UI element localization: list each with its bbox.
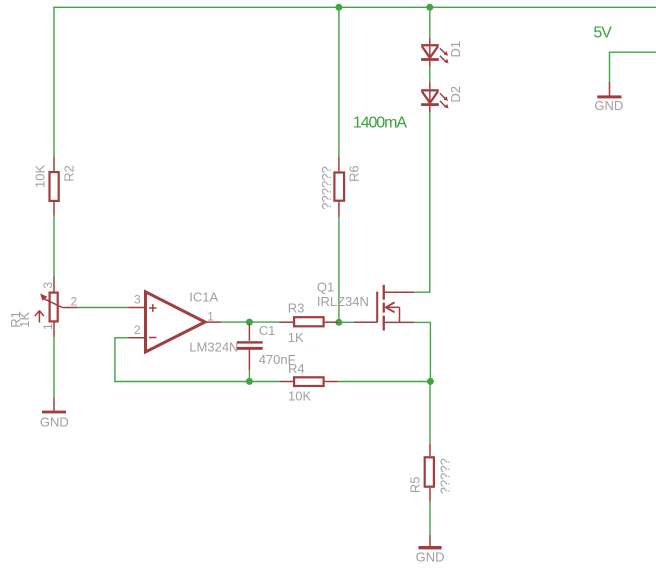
svg-text:??????: ?????? [319, 166, 334, 209]
wire source horizontal [414, 321, 430, 323]
resistor R5 [407, 443, 452, 501]
D2 cathode lead [429, 106, 431, 112]
wire R6 top vertical [338, 7, 340, 157]
svg-text:Q1: Q1 [317, 279, 334, 294]
Q1 bulk vertical link [399, 307, 401, 322]
R2 body [50, 172, 59, 201]
svg-text:3: 3 [134, 292, 141, 306]
junction feedback / C1 [246, 378, 253, 385]
ground top right bar [597, 95, 621, 98]
svg-text:2: 2 [134, 323, 141, 337]
svg-text:5V: 5V [593, 24, 612, 41]
D1 triangle right side [430, 46, 438, 57]
wire drain horizontal [414, 291, 430, 293]
op-amp U1 IC1A [128, 290, 238, 355]
svg-text:10K: 10K [32, 165, 47, 188]
IC1A minus sign [149, 337, 157, 339]
R5 body [425, 457, 434, 486]
R1 pin 3 lead [53, 277, 55, 292]
wire left vertical upper [53, 7, 55, 157]
R1 wiper diagonal [43, 298, 63, 307]
IC1A plus sign horizontal [149, 307, 157, 309]
wire R4 to source junction [338, 381, 431, 383]
resistor R2 [32, 156, 76, 215]
C1 bottom plate [237, 347, 263, 350]
Q1 drain lead [385, 291, 414, 293]
D2 light arrow 2 shaft [440, 101, 446, 107]
wire D2 cathode down to drain [429, 112, 431, 293]
Q1 channel bulk segment [383, 303, 385, 313]
svg-text:R2: R2 [62, 165, 77, 182]
wire D1 cathode to D2 anode [429, 67, 431, 83]
C1 bottom lead [248, 350, 250, 371]
wire source down to junction [429, 322, 431, 382]
svg-text:10K: 10K [288, 389, 311, 404]
Q1 bulk arrow barb upper [386, 302, 395, 307]
svg-text:D1: D1 [448, 41, 463, 58]
resistor R4 [280, 361, 338, 404]
svg-text:R3: R3 [288, 300, 305, 315]
svg-text:1K: 1K [17, 311, 32, 327]
R1 wiper pin 2 lead [62, 307, 77, 309]
resistor R3 [279, 300, 338, 344]
D2 triangle right side [430, 92, 438, 103]
wire R3 to gate [338, 321, 354, 323]
wire op-amp output to R3 [221, 321, 279, 323]
D1 light arrow 1 shaft [440, 48, 445, 53]
wire op-amp minus to feedback corner [114, 337, 128, 339]
junction top at LED column [426, 4, 433, 11]
R2 pin 2 lead [53, 202, 55, 216]
LED D2 [421, 82, 463, 112]
R6 pin 2 lead [338, 202, 340, 217]
R1 body [50, 293, 58, 322]
D1 triangle base bar [421, 44, 439, 46]
C1 top plate [237, 341, 263, 343]
svg-text:GND: GND [416, 550, 445, 565]
IC1A triangle [146, 292, 206, 352]
D2 light arrow 1 head [443, 96, 448, 101]
junction R3 / R6 / gate [335, 319, 342, 326]
R1 pin 1 lead [53, 323, 55, 338]
R2 pin 1 lead [53, 156, 55, 171]
R5 pin 1 lead [429, 443, 431, 456]
ground bottom right bar [419, 546, 442, 549]
svg-text:R5: R5 [407, 476, 422, 493]
Q1 source lead [385, 321, 414, 323]
R6 body [334, 173, 344, 201]
IC1A pin 3 lead [128, 307, 144, 309]
wire 5V vertical to ground [609, 52, 611, 82]
wire R5 to ground [429, 502, 431, 535]
transistor Q1 IRLZ34N [317, 279, 414, 330]
R3 pin 1 lead [279, 321, 293, 323]
svg-text:IC1A: IC1A [189, 290, 218, 305]
svg-text:3: 3 [41, 282, 55, 289]
junction source / R4 / R5 [427, 378, 434, 385]
IC1A pin 1 output lead [205, 321, 222, 323]
D1 light arrow 2 shaft [440, 56, 446, 62]
svg-text:LM324N: LM324N [189, 340, 238, 355]
D1 light arrow 1 head [443, 51, 448, 56]
junction top at R6 [335, 4, 342, 11]
R4 pin 1 lead [280, 381, 294, 383]
svg-text:1400mA: 1400mA [353, 115, 407, 132]
LED D1 [421, 38, 463, 67]
svg-text:1: 1 [41, 323, 55, 330]
R1 trim arrow barb left [35, 311, 40, 317]
wire pot to ground [53, 337, 55, 397]
C1 top lead [248, 324, 250, 341]
svg-text:D2: D2 [448, 86, 463, 103]
R6 pin 1 lead [338, 157, 340, 172]
wire wiper to op-amp plus input [78, 307, 129, 309]
wire feedback vertical [114, 338, 116, 382]
svg-text:1: 1 [207, 310, 214, 324]
Q1 gate bar [376, 292, 378, 323]
junction op-amp output / C1 [246, 319, 253, 326]
wire left vertical between R2 and R1 [53, 216, 55, 277]
D1 center lead [429, 46, 431, 58]
Q1 channel source segment [383, 316, 385, 331]
D2 light arrow 1 shaft [440, 93, 445, 98]
ground bottom right stub [429, 535, 431, 546]
IC1A plus sign vertical [152, 304, 154, 312]
D2 light arrow 2 head [444, 104, 449, 109]
svg-text:GND: GND [594, 98, 623, 113]
wire R6 bottom vertical [338, 217, 340, 322]
wire C1 bottom to feedback [248, 370, 250, 381]
ground symbol left [40, 397, 69, 429]
Q1 gate lead [354, 321, 377, 323]
R3 pin 2 lead [325, 321, 338, 323]
D1 light arrow 2 head [444, 59, 449, 64]
wire top to D1 anode [429, 7, 431, 38]
D2 triangle left side [422, 92, 430, 103]
ground left bar [42, 411, 66, 414]
ground top right stub [609, 82, 611, 96]
R3 body [294, 317, 324, 326]
D2 center lead [429, 92, 431, 104]
D1 cathode bar [421, 58, 439, 61]
D1 triangle left side [422, 46, 430, 57]
Q1 bulk arrow barb lower [386, 307, 395, 312]
R1 wiper arrowhead [40, 294, 47, 301]
R4 body [294, 377, 324, 386]
potentiometer R1 [8, 277, 78, 338]
wire feedback horizontal [114, 381, 279, 383]
wire top horizontal net [53, 6, 656, 8]
D2 cathode bar [421, 103, 439, 106]
R4 pin 2 lead [325, 381, 338, 383]
wire 5V horizontal [610, 51, 656, 53]
ground symbol bottom right [416, 535, 445, 565]
resistor R6 [319, 157, 362, 218]
wire junction down to R5 [429, 382, 431, 444]
svg-text:IRLZ34N: IRLZ34N [317, 294, 369, 309]
svg-text:C1: C1 [259, 323, 276, 338]
R5 pin 2 lead [429, 488, 431, 502]
R1 trim arrow barb right [39, 311, 44, 317]
D2 triangle base bar [421, 89, 439, 91]
svg-text:2: 2 [71, 294, 78, 308]
capacitor C1 [237, 323, 296, 370]
D2 anode lead [429, 82, 431, 89]
svg-text:R6: R6 [347, 165, 362, 182]
D1 cathode lead [429, 61, 431, 67]
IC1A pin 2 lead [128, 337, 144, 339]
R1 trim arrow shaft [38, 312, 40, 323]
svg-text:1K: 1K [288, 330, 304, 345]
svg-text:GND: GND [40, 415, 69, 430]
Q1 bulk horizontal link [385, 306, 400, 308]
svg-text:R4: R4 [288, 361, 305, 376]
Q1 channel drain segment [383, 285, 385, 300]
D1 anode lead [429, 38, 431, 44]
svg-text:?????: ????? [438, 458, 453, 494]
ground symbol top right [594, 82, 623, 113]
ground left stub [53, 397, 55, 411]
